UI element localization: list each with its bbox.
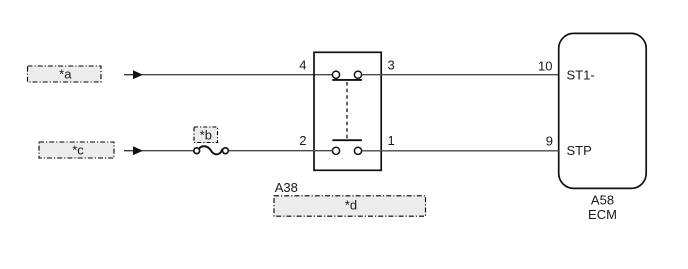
wire: arrow to fusible link — [142, 150, 194, 152]
svg-text:STP: STP — [567, 143, 592, 158]
wire: switch pin 3 to ECM pin 10 — [362, 74, 559, 76]
svg-text:3: 3 — [388, 58, 395, 73]
svg-text:A38: A38 — [275, 180, 298, 195]
top contact circle left — [332, 71, 339, 78]
svg-text:10: 10 — [538, 59, 552, 74]
bottom contact circle left — [332, 147, 339, 154]
fusible link *b — [194, 146, 229, 154]
svg-text:2: 2 — [299, 133, 306, 148]
bottom contact bar — [332, 139, 362, 141]
wire: arrow to switch pin 4 — [142, 74, 332, 76]
arrow (bottom feed) — [124, 146, 143, 155]
wire: switch pin 1 to ECM pin 9 — [362, 150, 559, 152]
label box *c — [39, 142, 114, 158]
svg-text:4: 4 — [299, 58, 306, 73]
svg-text:1: 1 — [388, 133, 395, 148]
label box *d — [274, 196, 426, 216]
top contact bar — [332, 79, 362, 81]
wire: fusible link to switch pin 2 — [229, 150, 333, 152]
svg-text:*a: *a — [59, 67, 72, 82]
svg-text:*d: *d — [345, 197, 357, 212]
svg-text:A58: A58 — [591, 193, 614, 208]
switch A38 box — [314, 52, 381, 170]
svg-text:*b: *b — [200, 127, 212, 142]
ECM block A58 — [559, 33, 647, 188]
label box *b — [194, 127, 218, 143]
mechanical link (dashed) — [346, 82, 348, 139]
svg-text:*c: *c — [72, 143, 84, 158]
svg-text:9: 9 — [546, 133, 553, 148]
svg-text:ECM: ECM — [588, 207, 617, 222]
arrow (top feed) — [124, 70, 143, 79]
bottom contact circle right — [354, 147, 361, 154]
svg-text:ST1-: ST1- — [567, 67, 595, 82]
top contact circle right — [354, 71, 361, 78]
label box *a — [28, 66, 102, 82]
